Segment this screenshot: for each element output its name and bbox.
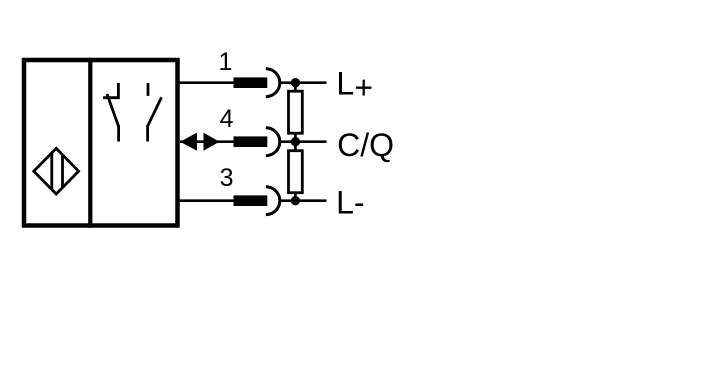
pin 3 terminal bar bbox=[234, 195, 268, 206]
wire pin4 bbox=[180, 140, 235, 143]
sensor body outline bbox=[24, 60, 178, 226]
pin 4 terminal bar bbox=[234, 136, 268, 147]
svg-text:+: + bbox=[354, 70, 373, 106]
vertical bus wire bbox=[294, 83, 297, 201]
wire pin1 bbox=[178, 81, 235, 84]
diamond inner bar right bbox=[61, 155, 64, 187]
connector socket arc pin1 bbox=[266, 69, 280, 97]
junction node L+ bbox=[291, 78, 300, 87]
wire L+ bbox=[281, 81, 327, 84]
wire pin3 bbox=[178, 199, 235, 202]
divider line bbox=[88, 58, 92, 228]
inductive sensor diamond bbox=[34, 148, 79, 194]
svg-text:3: 3 bbox=[220, 164, 234, 192]
NC contact switch bbox=[103, 83, 119, 142]
junction node C/Q bbox=[291, 137, 300, 146]
bidirectional arrow bbox=[180, 133, 197, 151]
resistor R2 bbox=[289, 151, 303, 193]
wire C/Q bbox=[281, 140, 327, 143]
svg-text:C/Q: C/Q bbox=[337, 127, 394, 163]
svg-text:1: 1 bbox=[219, 48, 233, 76]
pin 1 terminal bar bbox=[234, 77, 268, 88]
diamond inner bar left bbox=[50, 153, 53, 189]
svg-text:L: L bbox=[336, 66, 354, 102]
svg-text:L-: L- bbox=[336, 185, 364, 221]
resistor R1 bbox=[289, 91, 303, 133]
svg-text:4: 4 bbox=[220, 105, 234, 133]
junction node L- bbox=[291, 196, 300, 205]
NO contact switch bbox=[148, 83, 162, 142]
connector socket arc pin4 bbox=[266, 128, 280, 156]
wire L- bbox=[281, 199, 327, 202]
connector socket arc pin3 bbox=[266, 187, 280, 215]
